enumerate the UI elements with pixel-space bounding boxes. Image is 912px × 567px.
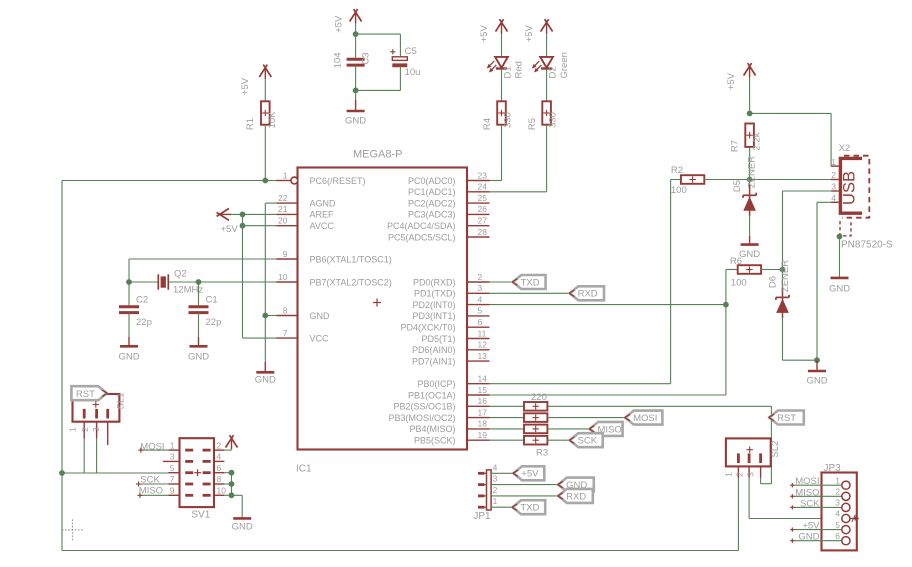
svg-text:4: 4 [493,462,498,472]
svg-text:1: 1 [831,157,836,167]
svg-text:PB3(MOSI/OC2): PB3(MOSI/OC2) [388,413,455,423]
svg-text:JP1: JP1 [473,511,491,522]
svg-text:PD3(INT1): PD3(INT1) [412,311,455,321]
svg-text:22p: 22p [206,317,222,328]
svg-text:+5V: +5V [524,25,535,43]
svg-text:PD6(AIN0): PD6(AIN0) [412,345,456,355]
svg-text:2: 2 [217,440,222,450]
svg-text:R3: R3 [536,448,548,459]
svg-text:15: 15 [478,385,488,395]
svg-text:PC4(ADC4/SDA): PC4(ADC4/SDA) [387,221,456,231]
svg-text:PC0(ADC0): PC0(ADC0) [408,176,456,186]
svg-text:PC5(ADC5/SCL): PC5(ADC5/SCL) [388,232,456,242]
svg-text:24: 24 [478,182,488,192]
svg-text:GND: GND [188,352,209,363]
svg-text:PB6(XTAL1/TOSC1): PB6(XTAL1/TOSC1) [310,254,392,264]
svg-text:1: 1 [170,440,175,450]
svg-text:10: 10 [278,272,288,282]
svg-text:+5V: +5V [221,224,239,235]
svg-text:PN87520-S: PN87520-S [841,240,893,251]
svg-text:RST: RST [76,389,95,400]
svg-text:16: 16 [478,396,488,406]
svg-text:SV1: SV1 [191,510,210,521]
svg-text:PB0(ICP): PB0(ICP) [417,379,455,389]
svg-text:PD2(INT0): PD2(INT0) [412,300,455,310]
svg-text:R7: R7 [730,140,741,152]
svg-text:7: 7 [170,474,175,484]
svg-text:3: 3 [170,452,175,462]
svg-text:2: 2 [734,472,744,477]
svg-text:330: 330 [503,112,514,128]
svg-text:Green: Green [559,52,570,78]
svg-text:PD1(TXD): PD1(TXD) [414,289,456,299]
svg-text:10K: 10K [267,111,278,129]
svg-text:5: 5 [170,463,175,473]
svg-text:SCK: SCK [140,475,160,486]
svg-text:R6: R6 [730,256,742,267]
svg-text:GND: GND [345,116,366,127]
svg-text:PC6(/RESET): PC6(/RESET) [310,176,366,186]
svg-text:100: 100 [731,278,747,289]
svg-text:8: 8 [217,474,222,484]
svg-text:104: 104 [333,52,344,68]
svg-text:ZENER: ZENER [746,156,757,188]
svg-text:220: 220 [531,392,547,403]
svg-text:26: 26 [478,204,488,214]
svg-text:12: 12 [478,340,488,350]
svg-text:GND: GND [739,249,760,260]
svg-text:2: 2 [493,485,498,495]
svg-text:PD0(RXD): PD0(RXD) [413,277,456,287]
svg-text:4: 4 [478,294,483,304]
svg-text:9: 9 [170,486,175,496]
svg-text:USB: USB [841,171,859,205]
svg-text:SCK: SCK [578,436,598,447]
svg-text:PB1(OC1A): PB1(OC1A) [408,390,456,400]
svg-text:SL1: SL1 [116,393,127,410]
svg-text:+5V: +5V [726,72,737,90]
svg-text:SL2: SL2 [770,441,781,458]
svg-text:C3: C3 [361,52,372,64]
svg-text:28: 28 [478,227,488,237]
svg-text:JP3: JP3 [824,463,842,474]
svg-text:PD5(T1): PD5(T1) [421,334,455,344]
svg-text:PD4(XCK/T0): PD4(XCK/T0) [400,323,455,333]
svg-text:330: 330 [548,112,559,128]
svg-text:PC1(ADC1): PC1(ADC1) [408,187,456,197]
svg-text:TXD: TXD [521,277,540,288]
svg-text:1: 1 [493,496,498,506]
svg-text:2: 2 [831,170,836,180]
svg-text:3: 3 [91,427,101,432]
svg-text:Red: Red [514,61,525,78]
svg-text:6: 6 [217,463,222,473]
svg-text:3: 3 [478,283,483,293]
svg-text:PC2(ADC2): PC2(ADC2) [408,198,456,208]
svg-text:GND: GND [829,284,850,295]
svg-text:3: 3 [745,472,755,477]
svg-text:1: 1 [68,427,78,432]
svg-text:D2: D2 [547,66,558,78]
svg-text:27: 27 [478,216,488,226]
svg-text:6: 6 [835,531,840,541]
svg-text:C2: C2 [136,295,148,306]
svg-text:3: 3 [831,182,836,192]
svg-text:5: 5 [478,306,483,316]
svg-text:7: 7 [283,328,288,338]
svg-text:PD7(AIN1): PD7(AIN1) [412,356,456,366]
svg-text:13: 13 [478,351,488,361]
svg-text:+5V: +5V [521,469,539,480]
svg-text:D6: D6 [767,276,778,288]
svg-text:PB5(SCK): PB5(SCK) [414,436,456,446]
svg-text:21: 21 [278,204,288,214]
svg-text:GND: GND [118,352,139,363]
svg-text:RXD: RXD [566,491,586,502]
svg-text:1: 1 [835,475,840,485]
svg-text:10: 10 [217,486,227,496]
svg-text:14: 14 [478,374,488,384]
svg-text:TXD: TXD [520,503,539,514]
svg-text:RST: RST [777,413,796,424]
svg-text:11: 11 [478,328,487,338]
svg-text:D5: D5 [732,180,743,192]
svg-text:3: 3 [493,474,498,484]
svg-text:PB2(SS/OC1B): PB2(SS/OC1B) [393,402,455,412]
svg-text:AGND: AGND [310,198,337,208]
svg-text:AREF: AREF [310,210,335,220]
svg-text:MISO: MISO [795,487,819,498]
svg-text:2: 2 [835,487,840,497]
svg-text:22: 22 [278,193,288,203]
svg-text:RXD: RXD [578,289,598,300]
svg-text:9: 9 [283,249,288,259]
svg-text:+5V: +5V [802,521,820,532]
svg-text:AVCC: AVCC [310,221,335,231]
svg-text:4: 4 [217,452,222,462]
svg-text:Q2: Q2 [174,269,187,280]
svg-text:22p: 22p [136,317,152,328]
svg-text:3: 3 [835,498,840,508]
svg-text:2: 2 [80,427,90,432]
svg-text:PB4(MISO): PB4(MISO) [409,424,455,434]
svg-text:17: 17 [478,407,488,417]
svg-text:GND: GND [806,376,827,387]
svg-text:C1: C1 [206,295,218,306]
svg-text:X2: X2 [839,143,851,154]
svg-text:R2: R2 [671,165,683,176]
svg-text:GND: GND [798,532,819,543]
svg-text:PB7(XTAL2/TOSC2): PB7(XTAL2/TOSC2) [310,277,392,287]
svg-text:MOSI: MOSI [633,413,657,424]
svg-text:GND: GND [255,375,276,386]
svg-text:23: 23 [478,170,488,180]
svg-text:R4: R4 [482,118,493,130]
svg-text:R1: R1 [245,118,256,130]
svg-text:GND: GND [310,311,331,321]
svg-text:MOSI: MOSI [795,476,819,487]
svg-text:R5: R5 [527,118,538,130]
svg-text:18: 18 [478,419,488,429]
svg-text:+5V: +5V [240,77,251,95]
svg-text:+5V: +5V [479,25,490,43]
svg-text:MOSI: MOSI [140,441,164,452]
svg-text:20: 20 [278,216,288,226]
svg-text:5: 5 [835,520,840,530]
svg-text:GND: GND [232,522,253,533]
svg-text:4: 4 [831,193,836,203]
svg-text:2: 2 [478,272,483,282]
svg-text:ZENER: ZENER [780,260,791,292]
svg-text:100: 100 [671,185,687,196]
svg-text:MEGA8-P: MEGA8-P [353,149,403,161]
svg-text:19: 19 [478,430,488,440]
svg-text:PC3(ADC3): PC3(ADC3) [408,210,456,220]
svg-text:VCC: VCC [310,333,330,343]
svg-text:25: 25 [478,193,488,203]
svg-text:IC1: IC1 [296,464,312,475]
svg-text:2.2k: 2.2k [752,132,763,150]
svg-text:10u: 10u [405,67,421,78]
svg-text:1: 1 [724,472,734,477]
svg-text:8: 8 [283,305,288,315]
svg-text:6: 6 [478,317,483,327]
svg-text:SCK: SCK [800,498,820,509]
svg-text:1: 1 [283,170,288,180]
svg-text:C5: C5 [405,46,417,57]
svg-text:D1: D1 [502,66,513,78]
svg-text:4: 4 [835,509,840,519]
svg-text:+5V: +5V [334,15,345,33]
